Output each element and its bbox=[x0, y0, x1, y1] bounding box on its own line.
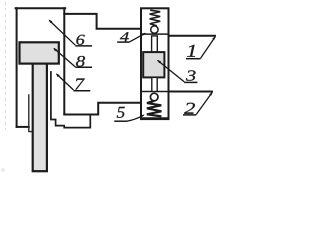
valve block outline bbox=[141, 8, 169, 119]
wire left wall bbox=[16, 8, 18, 127]
spring 4 (upper) bbox=[150, 10, 161, 26]
piston 8 bbox=[20, 42, 59, 63]
cylinder body outline bbox=[16, 8, 141, 127]
label 2 bbox=[183, 92, 213, 115]
spring 5 (lower) bbox=[147, 101, 162, 117]
lower stem bbox=[152, 77, 157, 91]
label 5 bbox=[114, 107, 145, 121]
valve upper seat partition bbox=[141, 33, 169, 35]
upper stem bbox=[152, 36, 158, 52]
label 8 bbox=[53, 48, 92, 68]
rod 7 bbox=[33, 64, 47, 172]
wire upper channel step bbox=[64, 14, 141, 29]
bore line left of rod bbox=[29, 95, 33, 132]
valve bottom edge (thick) bbox=[141, 117, 170, 119]
label 6 bbox=[48, 20, 92, 46]
wire right wall bbox=[63, 8, 65, 114]
label 1 bbox=[186, 36, 216, 59]
spool 3 bbox=[143, 52, 164, 77]
wire bottom left shelf bbox=[17, 126, 29, 128]
lower ball valve bbox=[150, 93, 158, 101]
label 3 bbox=[157, 60, 198, 83]
port line 1 bbox=[169, 35, 216, 37]
valve lower seat partition bbox=[141, 91, 169, 93]
port line 2 bbox=[169, 91, 213, 93]
scan artifact faint blob bottom left bbox=[1, 168, 5, 172]
bore line right of rod bbox=[51, 72, 90, 128]
upper ball valve bbox=[151, 26, 158, 33]
scan artifact faint dotted line at left margin bbox=[5, 2, 7, 130]
wire top edge bbox=[16, 7, 66, 9]
wire lower channel shelf bbox=[64, 103, 141, 115]
label 7 bbox=[56, 73, 91, 90]
label 4 bbox=[117, 32, 146, 42]
